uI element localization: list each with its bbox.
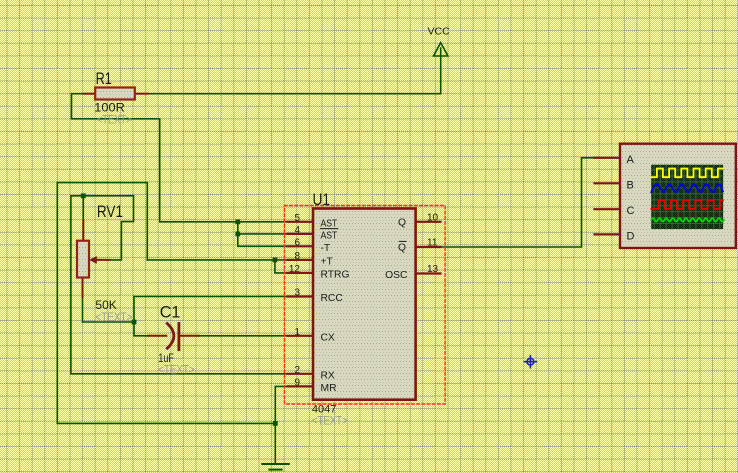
svg-text:Q: Q — [398, 243, 406, 254]
svg-text:MR: MR — [321, 383, 337, 394]
wire — [275, 260, 288, 273]
pin 6 — [288, 245, 313, 247]
pin 3 — [288, 295, 313, 297]
wire — [441, 158, 595, 247]
pin B stub — [595, 182, 621, 184]
svg-text:A: A — [627, 154, 635, 166]
svg-text:C1: C1 — [160, 303, 181, 322]
straight plate — [177, 324, 180, 350]
pin 8 — [288, 259, 313, 261]
svg-text:D: D — [627, 230, 635, 242]
scope screen — [651, 165, 724, 229]
wire — [71, 196, 134, 260]
node C1 junction — [132, 320, 137, 325]
wire — [134, 296, 288, 298]
wire — [72, 94, 288, 222]
wire — [71, 196, 288, 374]
svg-text:RTRG: RTRG — [321, 269, 350, 280]
node /AST/pin4 junction — [235, 232, 240, 237]
curved plate — [167, 324, 174, 349]
svg-text:1uF: 1uF — [158, 351, 174, 365]
svg-text:B: B — [627, 179, 634, 191]
svg-text:+T: +T — [321, 256, 334, 267]
origin marker — [524, 356, 536, 368]
svg-text:C: C — [627, 205, 635, 217]
svg-text:-T: -T — [321, 243, 331, 254]
wire — [238, 222, 288, 247]
svg-text:CX: CX — [321, 332, 335, 343]
net E: R1 left to AST pins — [72, 94, 288, 247]
svg-text:<TEXT>: <TEXT> — [312, 416, 348, 428]
svg-text:3: 3 — [294, 288, 300, 299]
svg-text:4047: 4047 — [312, 403, 336, 415]
power VCC arrow — [434, 43, 448, 56]
svg-text:13: 13 — [427, 264, 439, 275]
selection box (red dashed) around U1 — [285, 206, 446, 405]
svg-text:OSC: OSC — [385, 270, 408, 281]
svg-text:<TEXT>: <TEXT> — [95, 312, 132, 324]
U1 pin stubs left — [288, 222, 441, 387]
svg-text:8: 8 — [294, 251, 300, 262]
node ground junction — [273, 421, 278, 426]
U1 left pin numbers 5 4 6 8 12 3 1 2 9 — [289, 213, 301, 389]
wire — [134, 297, 148, 336]
Q overline — [399, 240, 406, 242]
node RV1 top junction — [81, 193, 86, 198]
node AST/pin5 junction — [235, 219, 240, 224]
net B: RV1 top + wiper + RX — [71, 196, 288, 374]
pin 1 — [288, 335, 313, 337]
net C: RV1 bottom + RCC + C1 left — [83, 297, 288, 336]
svg-text:<TEXT>: <TEXT> — [158, 364, 194, 376]
svg-text:11: 11 — [427, 238, 438, 249]
AST underline — [321, 228, 338, 230]
svg-text:R1: R1 — [96, 69, 112, 88]
svg-text:2: 2 — [294, 365, 300, 376]
pin 4 — [288, 233, 313, 235]
U1 pin name labels (AST /AST -T +T RTRG RCC CX RX MR, Q /Q OSC) — [321, 217, 408, 394]
waveform red — [651, 200, 723, 208]
svg-text:5: 5 — [294, 213, 300, 224]
svg-text:12: 12 — [289, 264, 301, 275]
pin 11 — [416, 246, 441, 248]
wire RV1 top lead green part — [82, 196, 84, 221]
scope channel labels A B C D — [627, 154, 635, 243]
resistor R1 — [84, 88, 148, 100]
svg-text:6: 6 — [294, 237, 300, 248]
net F: Qbar to scope A — [441, 158, 595, 247]
pin D stub — [595, 233, 621, 235]
U1 right pin numbers 10 11 13 — [427, 212, 439, 275]
wire — [147, 259, 287, 261]
svg-text:AST: AST — [321, 218, 338, 229]
wire — [238, 233, 288, 235]
wiper arrow — [95, 259, 110, 261]
screen dot texture — [651, 165, 723, 229]
svg-text:AST: AST — [321, 230, 338, 241]
net D: C1 right to CX — [199, 335, 289, 337]
net VCC: R1 right to VCC arrow — [148, 48, 441, 94]
screen background — [651, 165, 723, 229]
waveform blue — [651, 184, 723, 192]
potentiometer RV1 — [77, 221, 110, 297]
svg-text:RV1: RV1 — [97, 202, 123, 221]
pin 13 — [416, 272, 441, 274]
svg-text:VCC: VCC — [428, 25, 451, 37]
wire — [148, 48, 441, 94]
svg-text:RCC: RCC — [321, 293, 344, 304]
pin 5 — [288, 221, 313, 223]
node pin8 junction — [273, 258, 278, 263]
pin C stub — [595, 208, 621, 210]
svg-text:10: 10 — [427, 212, 439, 223]
net A: ground net — [57, 183, 288, 464]
wire — [57, 183, 275, 464]
oscilloscope body — [620, 144, 736, 248]
svg-text:100R: 100R — [94, 101, 125, 115]
oscilloscope — [595, 158, 621, 235]
screen graticule — [651, 165, 723, 229]
svg-text:RX: RX — [321, 370, 335, 381]
pin 2 — [288, 373, 313, 375]
pin 9 — [288, 385, 313, 387]
svg-text:Q: Q — [398, 217, 406, 228]
svg-text:4: 4 — [294, 225, 300, 236]
pin 12 — [288, 272, 313, 274]
svg-text:50K: 50K — [95, 298, 116, 312]
svg-text:<TEXT>: <TEXT> — [97, 115, 132, 127]
U1 body — [313, 209, 416, 400]
svg-text:U1: U1 — [313, 190, 331, 209]
svg-text:1: 1 — [294, 327, 300, 338]
capacitor C1 — [148, 324, 199, 350]
waveform yellow — [651, 169, 723, 178]
node junction dots — [235, 219, 240, 236]
pin 10 — [416, 221, 441, 223]
waveform green — [651, 218, 724, 221]
ground — [262, 464, 289, 470]
wire — [83, 297, 135, 322]
pin A stub — [595, 157, 621, 159]
wire — [199, 335, 289, 337]
svg-text:9: 9 — [294, 377, 300, 388]
wire — [275, 386, 288, 423]
